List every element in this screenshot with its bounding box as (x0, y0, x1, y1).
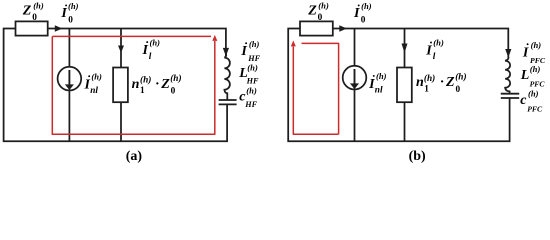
svg-text:(h): (h) (68, 1, 79, 11)
svg-text:(h): (h) (376, 71, 387, 81)
svg-text:(h): (h) (455, 71, 466, 82)
svg-text:Z: Z (445, 75, 455, 90)
svg-text:Z: Z (22, 4, 32, 19)
svg-text:I: I (353, 6, 360, 21)
svg-text:(h): (h) (528, 89, 539, 99)
svg-text:(h): (h) (91, 72, 102, 82)
svg-text:0: 0 (68, 16, 73, 26)
svg-text:0: 0 (171, 86, 176, 96)
svg-text:(a): (a) (126, 149, 143, 164)
svg-text:n: n (416, 75, 424, 90)
svg-text:n: n (132, 77, 140, 92)
svg-text:PFC: PFC (530, 80, 546, 89)
svg-text:Z: Z (160, 77, 170, 92)
svg-text:nl: nl (375, 85, 383, 95)
svg-text:(h): (h) (246, 86, 257, 96)
svg-text:(h): (h) (247, 63, 258, 73)
svg-text:HF: HF (246, 77, 259, 86)
svg-text:(h): (h) (433, 38, 444, 48)
svg-text:·: · (440, 75, 444, 90)
svg-text:0: 0 (318, 13, 323, 23)
svg-text:(h): (h) (361, 1, 372, 11)
svg-text:(h): (h) (424, 73, 435, 84)
svg-text:0: 0 (32, 13, 37, 23)
svg-text:1: 1 (140, 86, 145, 96)
svg-text:I: I (425, 43, 432, 58)
svg-text:(b): (b) (409, 149, 426, 164)
svg-text:(h): (h) (530, 64, 541, 74)
svg-text:(h): (h) (170, 73, 181, 84)
svg-text:L: L (520, 68, 530, 83)
svg-text:(h): (h) (150, 38, 161, 48)
svg-text:0: 0 (361, 16, 366, 26)
svg-text:l: l (433, 52, 436, 62)
svg-text:(h): (h) (318, 0, 329, 10)
svg-text:(h): (h) (33, 0, 44, 10)
svg-text:l: l (149, 52, 152, 62)
svg-text:I: I (240, 44, 247, 59)
svg-text:c: c (520, 93, 527, 108)
svg-text:HF: HF (244, 100, 257, 109)
svg-text:nl: nl (90, 86, 98, 96)
svg-text:I: I (142, 43, 149, 58)
svg-text:I: I (60, 6, 67, 21)
svg-text:(h): (h) (140, 75, 151, 86)
svg-text:(h): (h) (249, 39, 260, 49)
svg-text:1: 1 (424, 85, 429, 95)
svg-text:PFC: PFC (527, 105, 543, 114)
svg-text:Z: Z (307, 4, 317, 19)
svg-text:(h): (h) (531, 40, 542, 50)
svg-text:·: · (156, 77, 160, 92)
svg-text:0: 0 (456, 85, 461, 95)
svg-text:I: I (522, 46, 529, 61)
